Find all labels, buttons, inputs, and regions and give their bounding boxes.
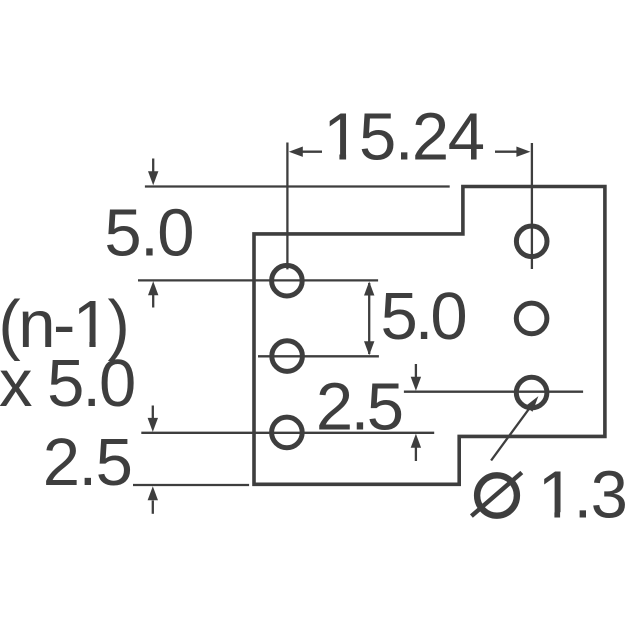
15.24 dim right arrow: [495, 147, 530, 157]
2.5 center upper arrow (down): [411, 364, 421, 391]
white patches to remove Liberation "1" baseline feet (target font has plain stems): [327, 154, 340, 161]
hole R3: [516, 377, 547, 408]
svg-text:2.5: 2.5: [316, 369, 402, 444]
hole row L1 line: [138, 279, 378, 281]
15.24 left extension line: [286, 143, 288, 270]
hole row L2 line: [258, 355, 379, 357]
svg-text:x 5.0: x 5.0: [0, 346, 134, 421]
diameter symbol slash: [471, 473, 521, 517]
2.5 bottom-left lower arrow (up): [148, 486, 158, 514]
15.24 right extension line: [531, 143, 533, 269]
part outline: [254, 187, 605, 485]
top edge extension line: [145, 185, 450, 187]
hole row L3 line: [141, 432, 434, 434]
svg-text:15.24: 15.24: [323, 100, 483, 175]
2.5 bottom-left upper arrow (down): [148, 406, 158, 432]
svg-text:5.0: 5.0: [104, 196, 193, 271]
5.0 top-left lower arrow (up): [148, 281, 158, 307]
bottom edge extension line: [133, 484, 249, 486]
svg-text:1.3: 1.3: [538, 458, 627, 533]
15.24 dim left arrow: [289, 147, 322, 157]
5.0 top-left upper arrow (down): [148, 159, 158, 186]
hole L3: [272, 417, 303, 448]
diameter symbol circle: [477, 475, 517, 515]
leader line to hole R3: [491, 396, 538, 460]
hole R1: [516, 226, 547, 257]
hole row R3 line: [404, 391, 583, 393]
svg-text:2.5: 2.5: [43, 425, 132, 500]
5.0 center down arrowhead: [364, 341, 374, 355]
svg-text:5.0: 5.0: [381, 279, 466, 354]
hole L2: [272, 341, 303, 372]
5.0 center dim line: [368, 283, 370, 354]
hole L1: [272, 265, 303, 296]
5.0 center up arrowhead: [364, 282, 374, 296]
hole R2: [516, 303, 547, 334]
2.5 center lower arrow (up): [411, 434, 421, 461]
